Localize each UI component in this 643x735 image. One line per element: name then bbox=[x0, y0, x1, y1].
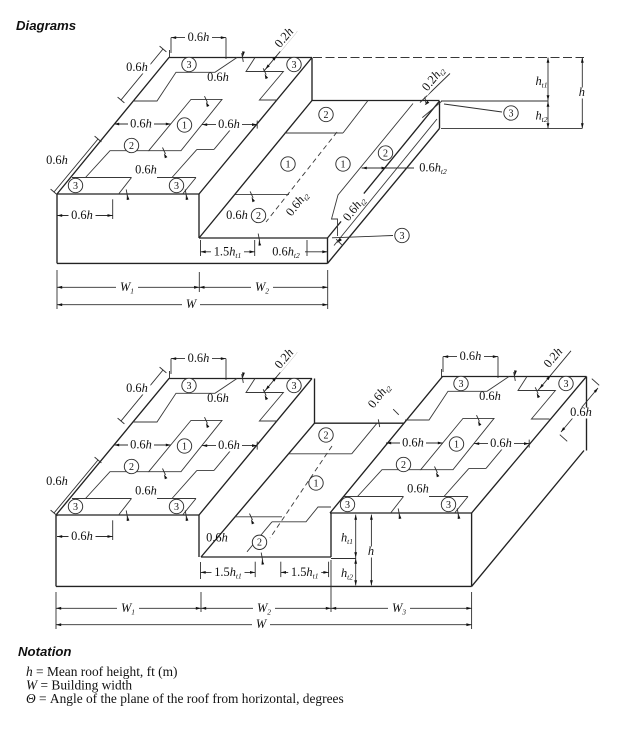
svg-text:0.6h: 0.6h bbox=[126, 60, 148, 74]
dimension 1.5h_t1 below upper lower-roof bbox=[200, 240, 202, 256]
svg-text:Diagrams: Diagrams bbox=[16, 18, 76, 33]
svg-text:1: 1 bbox=[341, 159, 346, 170]
svg-text:0.6h: 0.6h bbox=[490, 436, 512, 450]
tall roof zone line: bottom-left zigzag bbox=[358, 470, 421, 497]
leader to zone 3 at lower roof front corner bbox=[332, 236, 393, 238]
upper diagram: step wall back vertical edge bbox=[311, 58, 313, 101]
tall roof zone line: top-right staircase bbox=[518, 377, 555, 420]
svg-text:3: 3 bbox=[187, 60, 192, 71]
dimension 0.6h left-middle of tall roof bbox=[114, 444, 171, 446]
svg-text:2: 2 bbox=[324, 110, 329, 121]
dimension W upper diagram bbox=[57, 304, 328, 306]
svg-text:0.6h: 0.6h bbox=[188, 351, 210, 365]
corner zone sliver on lower roof bbox=[422, 101, 442, 118]
dimension 0.6h along upper-left roof edge bbox=[121, 49, 163, 100]
svg-text:2: 2 bbox=[257, 538, 262, 549]
svg-text:2: 2 bbox=[324, 430, 329, 441]
dimension line h overall bbox=[581, 58, 583, 129]
svg-text:3: 3 bbox=[400, 231, 405, 242]
tall roof zone line: bottom-middle staircase bbox=[197, 148, 214, 150]
label 0.6h lower area of tall roof bbox=[133, 486, 159, 497]
dimension W1 lower diagram bbox=[55, 592, 57, 629]
zone circle 2 left bbox=[396, 457, 410, 471]
upper diagram: step wall bbox=[198, 194, 200, 238]
svg-text:3: 3 bbox=[564, 379, 569, 390]
dimension 0.6h below front-left wall bbox=[112, 199, 114, 219]
reference line from lower roof corner bbox=[441, 100, 548, 102]
zone circle 2 on lower roof right bbox=[378, 146, 392, 160]
svg-text:3: 3 bbox=[292, 60, 297, 71]
zone circle 3 bottom-left bbox=[340, 497, 354, 511]
svg-text:3: 3 bbox=[459, 379, 464, 390]
dimension 0.2h at left roof corner bbox=[264, 352, 297, 392]
dimension 0.6h right-middle of tall roof bbox=[474, 443, 529, 445]
dimension h in valley bbox=[370, 515, 372, 586]
label 0.6h lower area of tall roof bbox=[133, 165, 159, 176]
dimension W1 upper diagram bbox=[56, 270, 58, 309]
tall roof interior zone boundary: zone 1 box bbox=[421, 418, 494, 469]
zone circle 1 center bbox=[177, 439, 191, 453]
tall roof zone line: top-right staircase bbox=[246, 379, 283, 422]
lower diagram: valley floor bbox=[201, 556, 331, 558]
dimension 0.6h_t2 below lower roof right bbox=[306, 240, 308, 256]
dimension W2 upper diagram bbox=[199, 286, 327, 288]
valley floor 0.6h zone line from step wall bbox=[235, 516, 282, 518]
dimension 1.5h_t1 right below valley bbox=[280, 562, 282, 577]
svg-text:1: 1 bbox=[182, 120, 187, 131]
upper diagram lower roof: right zone diagonal bbox=[332, 104, 414, 237]
svg-text:Notation: Notation bbox=[18, 644, 71, 659]
tall roof zone line: top-left corner zigzag bbox=[405, 377, 509, 421]
svg-text:1: 1 bbox=[314, 478, 319, 489]
svg-text:2: 2 bbox=[129, 141, 134, 152]
svg-text:0.6h: 0.6h bbox=[126, 381, 148, 395]
svg-text:3: 3 bbox=[174, 502, 179, 513]
svg-text:1: 1 bbox=[286, 159, 291, 170]
svg-text:0.6h: 0.6h bbox=[570, 405, 592, 419]
lower diagram: right step wall edge bbox=[330, 513, 332, 557]
svg-text:0.6h: 0.6h bbox=[479, 389, 501, 403]
zone circles 1 on lower roof bbox=[281, 157, 295, 171]
label 0.2h rotated above left roof corner bbox=[272, 346, 297, 373]
upper diagram: lower roof outline bbox=[199, 237, 328, 239]
zone circle 3 top-right bbox=[287, 57, 301, 71]
dimension 1.5h_t1 left below valley bbox=[200, 562, 202, 579]
svg-text:2: 2 bbox=[383, 148, 388, 159]
svg-text:3: 3 bbox=[73, 502, 78, 513]
tick arrows on tall roof edges bbox=[514, 370, 517, 376]
tall roof zone line: bottom-middle staircase bbox=[197, 469, 214, 471]
svg-text:2: 2 bbox=[401, 460, 406, 471]
tick on valley back edge bbox=[378, 419, 379, 427]
svg-text:0.6h: 0.6h bbox=[226, 208, 248, 222]
dimension 0.2h at tall roof corner bbox=[264, 31, 297, 71]
tall roof interior zone boundary: zone 1 box bbox=[149, 420, 222, 471]
svg-text:0.6h: 0.6h bbox=[135, 163, 157, 177]
dimension 0.2h at right roof corner bbox=[538, 351, 571, 391]
zone circle 3 bottom-middle bbox=[169, 499, 183, 513]
dimension 0.6h along upper-left roof edge bbox=[121, 370, 163, 421]
lower diagram: left step wall back vertical edge bbox=[314, 379, 316, 424]
lower diagram: right tall building outline bbox=[330, 377, 587, 514]
svg-text:Θ = Angle of the plane of the: Θ = Angle of the plane of the roof from … bbox=[26, 691, 344, 706]
dimension 0.6h left-middle of tall roof bbox=[114, 123, 171, 125]
tick above back-left roof corner bbox=[169, 371, 171, 379]
svg-text:0.6h: 0.6h bbox=[71, 529, 93, 543]
tick above back-left roof corner bbox=[441, 369, 443, 377]
upper diagram lower roof: back zone line bbox=[285, 132, 344, 134]
lower diagram valley: dashed center line bbox=[270, 446, 332, 538]
tall roof zone line: bottom-left zigzag bbox=[86, 472, 149, 499]
zone circle 2 left bbox=[124, 459, 138, 473]
zone circle 1 center bbox=[449, 437, 463, 451]
svg-text:0.6h: 0.6h bbox=[46, 474, 68, 488]
svg-text:W: W bbox=[256, 617, 268, 631]
upper diagram lower roof: dashed center line bbox=[266, 132, 337, 222]
svg-text:3: 3 bbox=[345, 500, 350, 511]
svg-text:0.6h: 0.6h bbox=[130, 117, 152, 131]
zone circle 3 bottom-left bbox=[68, 499, 82, 513]
tall roof interior zone boundary: zone 1 box bbox=[149, 99, 222, 150]
svg-text:0.6h: 0.6h bbox=[407, 482, 429, 496]
svg-text:2: 2 bbox=[256, 211, 261, 222]
svg-text:3: 3 bbox=[187, 381, 192, 392]
dimension 0.6h below front-left wall bbox=[112, 520, 114, 540]
tall roof zone line: top-left corner zigzag bbox=[133, 379, 237, 423]
zone circle 2 left bbox=[124, 138, 138, 152]
label 0.6h lower area of tall roof bbox=[405, 484, 431, 495]
label 0.2h rotated above right roof corner bbox=[541, 345, 566, 372]
dimension line h_t1 / h_t2 bbox=[547, 58, 549, 129]
svg-text:0.6h: 0.6h bbox=[188, 30, 210, 44]
upper diagram lower roof: right wall strip line bbox=[334, 119, 437, 246]
lower diagram valley: bottom zigzag bbox=[272, 507, 331, 522]
zone circle 1 on valley bbox=[309, 476, 323, 490]
label 0.6h_t2 rotated on right strip line bbox=[339, 192, 370, 227]
dimension 0.6h along right roof right edge bbox=[561, 388, 598, 432]
dimension 0.6h above back edge bbox=[171, 37, 226, 39]
lower diagram: left step wall bbox=[198, 515, 200, 557]
zone circle 3 top-right bbox=[559, 376, 573, 390]
reference line from building base corner bbox=[441, 127, 582, 129]
svg-text:0.6h: 0.6h bbox=[207, 70, 229, 84]
leader from valley floor to h dimension bbox=[331, 558, 356, 560]
tick above back-left roof corner bbox=[169, 50, 171, 58]
svg-text:0.6h: 0.6h bbox=[206, 531, 228, 545]
tick arrows on tall roof edges bbox=[242, 372, 245, 378]
svg-text:0.6h: 0.6h bbox=[218, 438, 240, 452]
svg-text:0.6h: 0.6h bbox=[402, 436, 424, 450]
lower diagram: right building walls bbox=[471, 513, 473, 586]
dimension line 0.2h_t2 at lower roof rear corner bbox=[420, 74, 450, 103]
upper diagram lower roof: 0.6h zone line from step wall bbox=[235, 194, 289, 196]
upper diagram: dashed roof-height reference line bbox=[313, 57, 584, 59]
lower diagram: left tall building outline bbox=[56, 379, 312, 516]
lower diagram: ground line bbox=[56, 585, 472, 587]
svg-text:0.6h: 0.6h bbox=[130, 438, 152, 452]
zone circle 3 top-left bbox=[454, 376, 468, 390]
zone circle 3 bottom-middle bbox=[169, 178, 183, 192]
svg-text:0.6h: 0.6h bbox=[207, 391, 229, 405]
svg-text:W: W bbox=[186, 297, 198, 311]
zone circle 2 on lower roof top bbox=[319, 107, 333, 121]
dimension 0.6h above back edge bbox=[443, 356, 498, 358]
dimension 0.6h along lower-left roof edge bbox=[54, 139, 98, 192]
upper diagram: right wall of lower building bbox=[327, 238, 329, 263]
dimension h_t1 h_t2 in valley bbox=[355, 515, 357, 586]
label 0.2h rotated above tall roof corner bbox=[272, 25, 297, 52]
svg-text:3: 3 bbox=[174, 181, 179, 192]
dimension 0.6h right-middle of tall roof bbox=[202, 124, 257, 126]
label 0.2h_t2 rotated at lower roof rear corner bbox=[419, 62, 449, 95]
zone circle 3 top-left bbox=[182, 57, 196, 71]
zone circle 3 bottom-middle bbox=[441, 497, 455, 511]
svg-text:1: 1 bbox=[182, 441, 187, 452]
svg-text:h: h bbox=[579, 85, 585, 99]
svg-text:3: 3 bbox=[292, 381, 297, 392]
dimension W lower diagram bbox=[56, 624, 472, 626]
svg-text:3: 3 bbox=[73, 181, 78, 192]
tall roof zone line: bottom-left zigzag bbox=[86, 151, 149, 178]
tall roof zone line: bottom-middle staircase bbox=[469, 467, 486, 469]
svg-text:3: 3 bbox=[446, 500, 451, 511]
tall roof zone line: top-right staircase bbox=[246, 58, 283, 101]
zone circle 3 bottom-left bbox=[68, 178, 82, 192]
dimension W2 lower diagram bbox=[201, 607, 331, 609]
label 0.6h_t2 rotated near right step wall bbox=[364, 379, 395, 414]
label 0.6h_t2 rotated on dashed line bbox=[282, 187, 313, 222]
dimension 0.6h along lower-left roof edge bbox=[54, 460, 98, 513]
svg-text:3: 3 bbox=[509, 108, 514, 119]
lower diagram valley: back zone line bbox=[288, 453, 351, 455]
tick arrow on lower roof front edge bbox=[259, 241, 262, 246]
svg-text:0.6h: 0.6h bbox=[218, 117, 240, 131]
svg-text:0.6h: 0.6h bbox=[460, 349, 482, 363]
dimension 0.6h above back edge bbox=[171, 358, 226, 360]
svg-text:0.6h: 0.6h bbox=[135, 484, 157, 498]
svg-text:h: h bbox=[368, 544, 374, 558]
tick arrow on valley front edge bbox=[262, 560, 265, 565]
dimension 0.6h_t2 horizontal on lower roof bbox=[362, 167, 418, 169]
tall roof zone line: top-left corner zigzag bbox=[133, 58, 237, 102]
dimension W3 lower diagram bbox=[331, 607, 472, 609]
zone circle 1 center bbox=[177, 118, 191, 132]
svg-text:0.6h: 0.6h bbox=[71, 208, 93, 222]
svg-text:0.6h: 0.6h bbox=[46, 153, 68, 167]
leader to zone 3 at lower roof rear corner bbox=[444, 104, 502, 112]
dimension 0.6h right-middle of tall roof bbox=[202, 445, 257, 447]
zone circle 3 top-right bbox=[287, 378, 301, 392]
dimension 0.6h left-middle of tall roof bbox=[386, 442, 443, 444]
svg-text:1: 1 bbox=[454, 439, 459, 450]
upper diagram: tall building outline bbox=[57, 58, 312, 195]
upper diagram: ground line bbox=[57, 262, 328, 264]
zone circle 2 on valley top bbox=[319, 428, 333, 442]
zone circle 3 top-left bbox=[182, 378, 196, 392]
label h bbox=[577, 88, 586, 99]
tick arrows on tall roof edges bbox=[242, 51, 245, 57]
svg-text:2: 2 bbox=[129, 462, 134, 473]
